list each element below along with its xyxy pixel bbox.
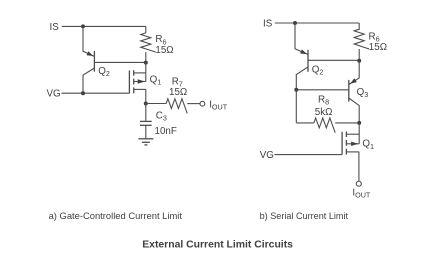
transistor Q1 NMOS (a) xyxy=(129,63,145,104)
svg-text:a) Gate-Controlled Current Lim: a) Gate-Controlled Current Limit xyxy=(49,210,183,221)
svg-text:5kΩ: 5kΩ xyxy=(315,107,333,118)
svg-text:VG: VG xyxy=(260,150,274,161)
svg-text:IOUT: IOUT xyxy=(352,187,371,199)
terminal IOUT (b) open circle xyxy=(356,181,361,186)
wire Q2 emitter from IS rail (a) xyxy=(83,26,94,56)
svg-text:15Ω: 15Ω xyxy=(369,42,387,53)
wire Q3 emitter from R6 node xyxy=(349,61,359,85)
transistor Q2 (a) PNP xyxy=(83,51,94,93)
wire VG to Q1 gate (b) xyxy=(275,154,343,156)
svg-text:15Ω: 15Ω xyxy=(155,45,173,56)
transistor Q1 NMOS (b) xyxy=(342,123,359,181)
wire IS top rail (b) xyxy=(275,22,359,24)
wire Q2 collector to Q3 base xyxy=(296,89,349,91)
wire VG to Q1 gate (a) xyxy=(62,92,130,94)
terminal IOUT (a) open circle xyxy=(200,101,205,106)
svg-text:Q3: Q3 xyxy=(357,87,369,99)
junction dot R6 bottom / Q3 emitter (b) xyxy=(357,59,361,63)
junction dot IS rail / Q2 emitter (b) xyxy=(293,21,297,25)
wire Q2 base to R6 node (a) xyxy=(94,61,145,63)
junction dot IS rail / Q2 emitter (a) xyxy=(81,24,85,28)
capacitor C3 xyxy=(140,104,152,139)
wire Q2 emitter from IS rail (b) xyxy=(295,23,308,55)
resistor R6 (a) xyxy=(141,26,156,62)
svg-text:Q2: Q2 xyxy=(312,64,324,76)
svg-text:C3: C3 xyxy=(156,110,167,122)
wire Q2 base to R6 node (b) xyxy=(308,59,359,61)
resistor R6 (b) xyxy=(354,23,369,61)
svg-text:b) Serial Current Limit: b) Serial Current Limit xyxy=(260,211,349,221)
junction dot R8 / Q3 collector / Q1 drain (b) xyxy=(357,121,361,125)
resistor R8 xyxy=(296,90,359,133)
svg-text:IS: IS xyxy=(50,22,60,33)
junction dot VG / Q2 collector (a) xyxy=(81,91,85,95)
transistor Q3 PNP xyxy=(349,78,359,123)
resistor R7 xyxy=(146,99,200,114)
svg-text:R8: R8 xyxy=(318,95,329,107)
svg-text:VG: VG xyxy=(47,89,61,100)
svg-text:External Current Limit Circuit: External Current Limit Circuits xyxy=(142,239,293,250)
svg-text:IOUT: IOUT xyxy=(209,99,228,111)
ground symbol xyxy=(138,139,153,145)
junction dot R6 bottom / Q1 drain (a) xyxy=(144,61,148,65)
svg-text:Q2: Q2 xyxy=(98,66,110,78)
svg-text:Q1: Q1 xyxy=(362,139,374,151)
transistor Q2 (b) PNP xyxy=(296,49,308,89)
svg-text:15Ω: 15Ω xyxy=(169,87,187,98)
wire IS top rail (a) xyxy=(62,25,146,27)
svg-text:10nF: 10nF xyxy=(155,126,177,137)
junction dot Q2 collector / Q3 base / R8 xyxy=(294,88,298,92)
svg-text:Q1: Q1 xyxy=(150,75,162,87)
junction dot Q1 source / R7 / C3 (a) xyxy=(144,102,148,106)
svg-text:IS: IS xyxy=(263,18,273,29)
